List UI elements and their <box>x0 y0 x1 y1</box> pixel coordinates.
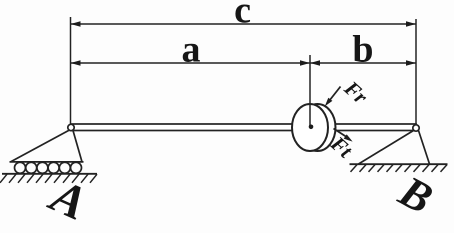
svg-text:a: a <box>182 29 201 71</box>
arrowhead a right <box>300 60 310 65</box>
support A left leg <box>11 130 70 162</box>
roller 5 <box>59 162 70 173</box>
ground hatching A <box>0 174 97 183</box>
force Ft line <box>334 129 350 139</box>
dimension line b <box>310 62 416 64</box>
dimension line a <box>71 62 311 64</box>
arrowhead b left <box>310 60 320 65</box>
arrowhead b right <box>406 60 416 65</box>
force Fr line <box>328 87 341 104</box>
extension line right (from support B up) <box>415 19 417 125</box>
roller 2 <box>26 162 37 173</box>
beam (shaft) <box>71 124 416 131</box>
support A right leg <box>73 131 82 162</box>
arrowhead a left <box>71 60 81 65</box>
force Ft arrowhead <box>344 134 353 141</box>
extension line middle (from pulley centre up) <box>309 55 311 127</box>
extension line left (from support A up) <box>70 17 72 124</box>
svg-text:c: c <box>234 0 251 32</box>
dimension line c <box>71 23 417 25</box>
support B right leg <box>419 131 430 165</box>
roller 1 <box>15 162 26 173</box>
pulley centre dot <box>309 125 314 130</box>
roller 4 <box>48 162 59 173</box>
support A base line <box>10 161 84 163</box>
ground line A <box>2 173 97 175</box>
arrowhead c left <box>71 21 81 26</box>
pulley face (front ellipse) <box>292 104 328 151</box>
pin A <box>68 124 74 130</box>
svg-text:b: b <box>352 29 373 71</box>
ground hatching B <box>351 165 448 172</box>
arrowhead c right <box>406 21 416 26</box>
support B left leg <box>359 131 414 165</box>
force Fr arrowhead <box>325 98 333 107</box>
pulley rim (rear ellipse) <box>300 104 336 151</box>
roller 3 <box>37 162 48 173</box>
pin B <box>413 125 419 131</box>
roller 6 <box>71 162 82 173</box>
ground line B <box>350 163 448 165</box>
